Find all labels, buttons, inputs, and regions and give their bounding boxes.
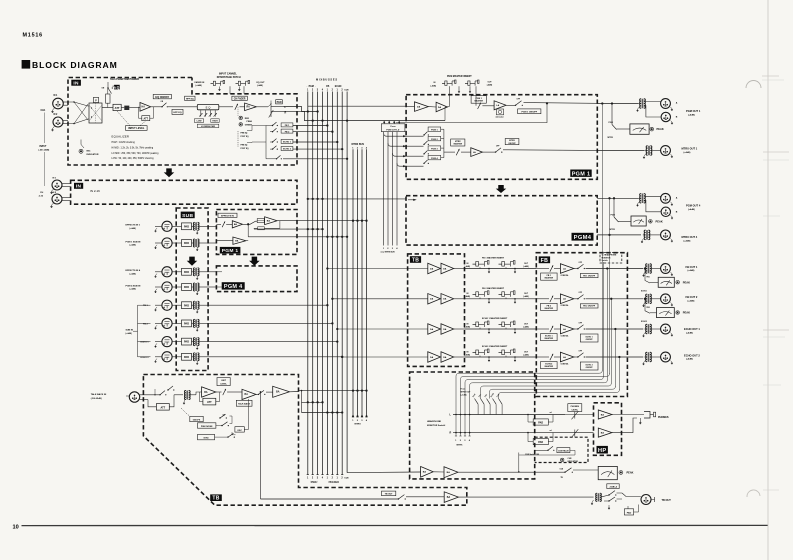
pgm1 peak led — [650, 127, 654, 131]
cue send to bus — [283, 158, 347, 160]
svg-text:FB OUT 1: FB OUT 1 — [686, 265, 698, 269]
mic indicator — [80, 140, 82, 145]
svg-text:FB ECHO: FB ECHO — [329, 482, 340, 484]
sub jack row 2 — [162, 238, 172, 248]
svg-text:IN: IN — [467, 351, 470, 353]
tb out line — [261, 498, 399, 500]
svg-text:LOW : 50, 100, 200, 350, 5: LOW : 50, 100, 200, 350, 500Hz shelving — [112, 158, 155, 160]
effects amp BA1 — [232, 221, 242, 228]
svg-text:FB: FB — [541, 258, 549, 264]
label tag IN (2-16) — [74, 183, 83, 189]
svg-text:2-16: 2-16 — [39, 195, 44, 197]
block PGM1 master dashed outline — [406, 95, 597, 180]
svg-text:OUT: OUT — [524, 293, 529, 295]
flow arrow SUB column — [187, 257, 198, 266]
svg-text:OFF: OFF — [579, 262, 582, 264]
svg-text:3: 3 — [361, 147, 363, 149]
fb master row 1 fader — [550, 265, 553, 271]
svg-text:CUE: CUE — [344, 90, 349, 92]
svg-text:ECHO2: ECHO2 — [641, 321, 647, 323]
pgm1 out line — [597, 103, 638, 105]
svg-text:MTRX OUT: MTRX OUT — [461, 392, 472, 394]
sub jack row 6 — [162, 318, 172, 328]
svg-text:ON/OFF: ON/OFF — [586, 367, 594, 369]
svg-text:4: 4 — [322, 89, 324, 92]
output PGM OUT 4 transformer — [640, 194, 642, 204]
svg-text:LA: LA — [496, 104, 499, 107]
svg-text:PEAK: PEAK — [683, 280, 690, 284]
svg-text:PAD: PAD — [538, 441, 543, 444]
svg-text:PHONES: PHONES — [571, 406, 580, 408]
sub feed lines rows 1-2 to PGM1 sub — [208, 225, 216, 227]
svg-text:PRE EQ: PRE EQ — [241, 144, 248, 146]
svg-text:IN: IN — [467, 263, 470, 265]
svg-text:IN: IN — [76, 184, 82, 190]
effects out to mtrx busses — [277, 220, 366, 222]
svg-text:PRE EQ: PRE EQ — [241, 132, 248, 134]
svg-text:M I X B U S S E S: M I X B U S S E S — [316, 78, 337, 82]
svg-text:2: 2 — [387, 248, 389, 250]
talkback out switch — [256, 393, 259, 395]
svg-text:(-4dB): (-4dB) — [465, 325, 471, 328]
svg-text:BA: BA — [235, 240, 239, 243]
pgm4 meter — [631, 216, 646, 226]
sub pgm amp BA3 — [216, 240, 233, 242]
pgm1 master attenuator box — [496, 109, 503, 115]
svg-text:1: 1 — [455, 440, 457, 442]
svg-text:TALK BACK IN: TALK BACK IN — [91, 393, 107, 396]
svg-text:LA: LA — [563, 267, 566, 270]
svg-text:HIGH : 10kHz shelving: HIGH : 10kHz shelving — [112, 142, 136, 144]
svg-text:PGM OUT 4: PGM OUT 4 — [686, 204, 701, 208]
block TB bus-amps dashed outline — [408, 254, 465, 367]
tb out switch network — [601, 495, 609, 497]
monitor source switches — [475, 399, 479, 405]
fb echo cue send switches and boxes — [272, 125, 273, 126]
svg-text:MONITOR SwitcH: MONITOR SwitcH — [427, 424, 446, 427]
svg-text:OFF: OFF — [579, 292, 582, 294]
svg-text:(+1dB): (+1dB) — [461, 395, 467, 397]
svg-text:(-4dB): (-4dB) — [523, 353, 529, 356]
svg-text:LO MID/HI MID: LO MID/HI MID — [201, 126, 216, 128]
svg-text:IN 2-16: IN 2-16 — [90, 189, 100, 193]
block PGM1 sub dashed outline — [216, 210, 297, 255]
svg-text:PGM 1: PGM 1 — [431, 129, 438, 131]
fb master row 4 label box — [541, 362, 558, 369]
svg-text:1: 1 — [352, 420, 354, 422]
bus amp pair row 1 — [408, 268, 428, 270]
scan artifact arcs — [746, 81, 761, 89]
svg-text:ECHO1: ECHO1 — [641, 291, 647, 293]
svg-text:BA: BA — [245, 393, 249, 396]
svg-text:EQUALIZER: EQUALIZER — [112, 135, 130, 139]
svg-text:(-4dB): (-4dB) — [257, 84, 263, 87]
sub feed lines rows 3-4 to PGM4 sub — [208, 271, 217, 273]
svg-text:PAD: PAD — [627, 511, 632, 514]
output ECHO OUT 1 transformer — [646, 324, 648, 334]
fb master row 2 label box — [541, 303, 558, 310]
svg-text:BA: BA — [234, 223, 238, 226]
svg-text:R: R — [285, 111, 287, 114]
svg-text:DA: DA — [417, 105, 421, 108]
label tag IN — [71, 80, 81, 86]
svg-text:2: 2 — [332, 90, 334, 92]
svg-text:2: 2 — [460, 440, 462, 442]
svg-text:ECHO 2: ECHO 2 — [283, 149, 292, 151]
svg-text:PAD: PAD — [184, 323, 189, 326]
fb master row 4 fader — [550, 354, 553, 360]
svg-text:ECHO OUT 1: ECHO OUT 1 — [684, 327, 700, 331]
label tag PGM4 big — [572, 233, 594, 241]
eq on/off box — [153, 94, 171, 98]
svg-text:HPF EQ: HPF EQ — [186, 98, 194, 100]
effects fader — [216, 223, 221, 225]
svg-text:500CPS: 500CPS — [193, 419, 201, 421]
svg-text:B: B — [676, 212, 678, 214]
svg-text:M 2: M 2 — [54, 114, 59, 116]
pgm4 input line from bus — [308, 198, 406, 200]
bottom peak led — [619, 471, 623, 475]
svg-text:FB2: FB2 — [647, 307, 650, 309]
pgm summing feedback — [445, 107, 447, 121]
svg-text:SUB: SUB — [182, 213, 193, 219]
svg-text:PEAK: PEAK — [656, 219, 663, 223]
svg-text:From: From — [391, 126, 396, 128]
bus lines PGM1-4 FB1-2 ECHO1-2 CUE — [307, 92, 309, 475]
connector CH2-16 XLR b — [52, 194, 62, 204]
svg-text:OUT: OUT — [524, 323, 529, 325]
svg-text:IN: IN — [73, 81, 79, 87]
svg-text:4: 4 — [366, 146, 368, 149]
eq bypass switch — [151, 106, 162, 108]
svg-text:MASTER: MASTER — [545, 337, 554, 340]
svg-text:BLOCK DIAGRAM: BLOCK DIAGRAM — [32, 60, 118, 70]
output PGM OUT 1 transformer — [640, 99, 642, 109]
svg-text:-10dB/+4: -10dB/+4 — [609, 485, 618, 488]
pgm1 to matrix feed tap — [396, 103, 547, 122]
svg-text:HIGH: HIGH — [212, 121, 218, 123]
svg-text:2: 2 — [341, 90, 343, 92]
fb master row 2 on/off box — [580, 304, 598, 308]
svg-text:TB: TB — [412, 257, 419, 263]
svg-text:ATT: ATT — [144, 118, 149, 121]
svg-text:(+4dB): (+4dB) — [688, 269, 695, 272]
svg-text:PAD: PAD — [538, 422, 543, 425]
tb out transformer — [596, 493, 598, 501]
heading BLOCK DIAGRAM — [22, 60, 31, 69]
svg-text:OUT: OUT — [524, 351, 529, 353]
output FB OUT 2 transformer — [646, 294, 648, 304]
bus bottom labels — [307, 474, 309, 476]
pgm summing amps — [406, 106, 414, 108]
mtrx4 out line — [597, 234, 641, 236]
svg-text:(+4dB): (+4dB) — [684, 239, 691, 242]
svg-text:MASTER: MASTER — [545, 307, 554, 310]
osc box — [235, 427, 244, 432]
label tag TB bottom — [210, 494, 222, 501]
fb master row 3 on/off box — [580, 334, 598, 342]
pan pot — [256, 106, 268, 108]
svg-text:DA: DA — [430, 267, 434, 270]
svg-text:cal: cal — [550, 430, 553, 432]
svg-text:M 1: M 1 — [53, 178, 57, 180]
svg-text:MTRX BUS: MTRX BUS — [352, 143, 365, 146]
svg-text:(+4dB): (+4dB) — [126, 332, 133, 335]
fb1 meter branch — [644, 267, 646, 269]
svg-text:CH FADER: CH FADER — [234, 97, 246, 100]
svg-text:ECHO: ECHO — [335, 86, 342, 88]
svg-text:ON: ON — [161, 101, 164, 103]
pgm1 meter — [630, 124, 649, 134]
svg-text:PGM: PGM — [611, 215, 616, 217]
flow arrow IN to IN2-16 — [164, 168, 175, 177]
sub in bracket — [138, 305, 151, 357]
svg-text:1: 1 — [307, 90, 309, 92]
hpf eq box 1 — [172, 109, 183, 114]
svg-text:ECHO 1 MASTER INSERT: ECHO 1 MASTER INSERT — [482, 317, 508, 320]
pgm4 peak led — [649, 220, 653, 224]
mtrx master amp — [471, 148, 483, 157]
svg-text:PGM MASTER INSERT: PGM MASTER INSERT — [447, 75, 472, 78]
equalizer block — [197, 104, 219, 109]
bus amp pair row 3 — [408, 328, 428, 330]
svg-text:LA: LA — [563, 328, 566, 331]
label tag TB mid — [410, 256, 421, 263]
svg-text:DA: DA — [430, 298, 434, 301]
matrix select boxes — [428, 127, 441, 131]
svg-text:OFF: OFF — [517, 99, 520, 101]
svg-text:2: 2 — [341, 478, 343, 480]
svg-text:RA: RA — [246, 106, 250, 109]
sub jack row 1 — [162, 221, 172, 231]
svg-text:CH1: CH1 — [41, 109, 46, 112]
svg-text:FB 2 ON/OFF: FB 2 ON/OFF — [583, 306, 596, 308]
phones level box — [568, 404, 582, 412]
svg-text:attenuator: attenuator — [496, 116, 505, 119]
tb out amp — [444, 492, 458, 503]
svg-text:(-4dB): (-4dB) — [465, 265, 471, 268]
pgm1 master amp LA — [494, 101, 506, 110]
channel amp RA — [245, 103, 257, 111]
att box 1 — [102, 107, 113, 109]
svg-text:1: 1 — [337, 90, 339, 92]
channel R out to bus — [284, 111, 446, 120]
svg-text:CUE: CUE — [344, 478, 349, 480]
svg-text:FB1: FB1 — [647, 277, 650, 279]
svg-text:SUB IN: SUB IN — [126, 329, 134, 331]
svg-text:BA: BA — [423, 471, 427, 474]
sub jack row 5 — [162, 300, 172, 310]
pgm1 master label box — [471, 96, 486, 104]
block headphone monitor dashed outline — [410, 372, 535, 479]
svg-text:TB: TB — [561, 477, 564, 479]
svg-text:IN: IN — [467, 323, 470, 325]
output MTRX OUT 4 transformer — [644, 230, 646, 240]
svg-text:EQ ON/OFF: EQ ON/OFF — [155, 96, 169, 99]
svg-text:3: 3 — [464, 440, 466, 442]
tb out vertical — [260, 391, 262, 393]
svg-text:L: L — [450, 413, 452, 416]
svg-text:(+4dB): (+4dB) — [688, 300, 695, 303]
svg-text:1: 1 — [352, 147, 354, 149]
svg-text:HI MID : 1.2k, 2k, 3.5k, 5k,: HI MID : 1.2k, 2k, 3.5k, 5k, 7kHz peakin… — [112, 147, 154, 149]
svg-text:PGM4: PGM4 — [574, 235, 592, 241]
svg-text:MTRX: MTRX — [509, 140, 515, 142]
output MTRX OUT 1 transformer — [646, 146, 648, 156]
line to fb echo cue busses — [248, 236, 347, 238]
label tag SUB — [181, 212, 195, 219]
fb master row 2 on/off switch — [574, 298, 578, 300]
svg-text:ATT: ATT — [115, 106, 120, 110]
svg-text:4: 4 — [322, 477, 324, 480]
tb to mtrx busses — [299, 390, 367, 392]
channel L out to bus — [284, 107, 318, 112]
svg-text:1: 1 — [383, 248, 385, 250]
block PGM4 sub dashed outline — [216, 266, 297, 292]
svg-text:CUE: CUE — [568, 458, 573, 460]
bottom peak meter — [598, 466, 617, 479]
svg-text:BA: BA — [204, 391, 208, 394]
gain trim block — [124, 106, 129, 110]
tb to fb echo busses — [302, 412, 343, 414]
svg-text:INPUT: INPUT — [40, 146, 47, 148]
svg-text:PEAK: PEAK — [683, 311, 690, 315]
svg-text:HPF EQ: HPF EQ — [173, 112, 181, 114]
svg-text:└PGM┘: └PGM┘ — [310, 480, 319, 484]
svg-text:2: 2 — [357, 420, 359, 422]
svg-text:(+4dB): (+4dB) — [130, 227, 137, 230]
phones level pots — [565, 414, 594, 416]
svg-text:EFFECTS IN: EFFECTS IN — [221, 216, 234, 218]
tb out line right — [458, 496, 593, 498]
mtrx master fader — [456, 149, 459, 155]
svg-text:PGM 3: PGM 3 — [431, 148, 438, 150]
pgm4 sub entry ticks — [217, 271, 222, 273]
svg-text:LA: LA — [473, 151, 476, 154]
svg-text:LA: LA — [563, 298, 566, 301]
svg-text:FB 1: FB 1 — [143, 305, 149, 307]
cue bus bend to monitor — [347, 471, 421, 474]
svg-text:PGM 1: PGM 1 — [572, 171, 591, 177]
eq tag phantom — [114, 85, 120, 90]
block IN 2-16 dashed outline — [71, 180, 297, 204]
ch fader — [219, 106, 233, 108]
svg-text:PEAK: PEAK — [627, 472, 634, 475]
svg-text:HP: HP — [598, 448, 607, 454]
cue line to peak meter — [458, 471, 565, 473]
svg-text:OFF: OFF — [496, 146, 499, 148]
pgm4 out line — [597, 197, 638, 199]
svg-text:IN: IN — [434, 82, 437, 84]
pgm4 big entry arrow — [408, 199, 415, 201]
talkback transformer — [174, 394, 183, 396]
talkback mix amp BA2 — [242, 389, 256, 399]
svg-text:INPUT LEVEL: INPUT LEVEL — [128, 127, 145, 130]
svg-text:OUT: OUT — [488, 81, 493, 83]
svg-text:(-4dB): (-4dB) — [487, 84, 493, 87]
fb master row 3 amp LA — [560, 324, 573, 334]
svg-text:PGM 2: PGM 2 — [431, 139, 438, 141]
svg-text:HEADPHONE: HEADPHONE — [427, 420, 442, 423]
label tag PGM 4 small — [222, 282, 245, 289]
flow arrow PGM column — [249, 257, 260, 266]
svg-text:BA: BA — [601, 431, 605, 434]
mtrx on/off box — [505, 139, 519, 145]
svg-text:FB 1 MASTER INSERT: FB 1 MASTER INSERT — [482, 257, 505, 260]
svg-text:3: 3 — [317, 478, 319, 480]
svg-text:4: 4 — [366, 419, 368, 422]
svg-text:A: A — [676, 197, 678, 200]
mtrx1 out line — [597, 150, 644, 152]
svg-text:FB1: FB1 — [478, 394, 482, 398]
mtrx on/off switch — [482, 151, 495, 153]
svg-text:MTRX: MTRX — [355, 424, 362, 426]
svg-text:LOW: LOW — [197, 121, 202, 123]
svg-text:PAD: PAD — [184, 225, 189, 228]
talkback xlr — [129, 392, 139, 402]
svg-text:FB 2 MASTER INSERT: FB 2 MASTER INSERT — [482, 287, 505, 290]
svg-text:LEVEL: LEVEL — [220, 384, 227, 386]
svg-text:1: 1 — [337, 478, 339, 480]
svg-text:MIC: MIC — [87, 151, 91, 153]
to headphone monitor text — [600, 252, 622, 263]
monitor feed lines from outputs — [601, 104, 603, 371]
equalizer pots — [200, 110, 202, 116]
svg-text:1: 1 — [327, 478, 329, 480]
svg-text:1: 1 — [307, 478, 309, 480]
cue relay — [535, 449, 548, 451]
svg-text:3: 3 — [392, 248, 394, 250]
svg-text:LEVEL: LEVEL — [572, 409, 579, 411]
svg-text:PAN: PAN — [277, 101, 282, 104]
svg-text:MTRX OUT 4: MTRX OUT 4 — [682, 235, 698, 239]
aux out to pgm busses — [254, 227, 258, 229]
svg-text:EQ OUT: EQ OUT — [257, 82, 266, 84]
svg-text:PAD: PAD — [184, 341, 189, 344]
svg-text:4: 4 — [469, 439, 471, 442]
low high labels — [194, 119, 203, 123]
svg-text:DA: DA — [443, 328, 447, 331]
svg-text:ECHO 1: ECHO 1 — [141, 342, 150, 344]
ch fader box — [232, 96, 247, 100]
fb master row 4 on/off box — [580, 362, 598, 370]
svg-text:TB: TB — [212, 496, 219, 502]
effects in box — [218, 213, 237, 217]
svg-text:ON/OFF: ON/OFF — [508, 143, 516, 145]
svg-text:LO MID : 250, 350, 500, 700, 1: LO MID : 250, 350, 500, 700, 1000Hz peak… — [112, 153, 160, 155]
pgm4 meter select switch — [613, 198, 615, 217]
svg-text:1: 1 — [327, 90, 329, 92]
fb2 meter branch — [644, 298, 646, 300]
svg-text:LA: LA — [563, 356, 566, 359]
talkback amp BA1 — [202, 387, 216, 397]
sub jack row 3 — [162, 267, 172, 277]
svg-text:OFF: OFF — [579, 322, 582, 324]
summing resistor box — [257, 219, 264, 223]
svg-text:OUT: OUT — [524, 263, 529, 265]
svg-text:TB OUT: TB OUT — [662, 499, 672, 502]
tb out pad box — [624, 509, 633, 515]
svg-text:FB OUT 2: FB OUT 2 — [686, 295, 698, 299]
matrix feed lines — [383, 132, 385, 246]
monitor mtrx stubs dots — [455, 414, 457, 416]
pgm1 meter select switch — [611, 104, 613, 125]
svg-text:CUE RELAY: CUE RELAY — [558, 450, 569, 453]
svg-text:←PGM→: ←PGM→ — [306, 86, 316, 88]
svg-text:ON/OFF: ON/OFF — [586, 339, 594, 341]
svg-text:PGM 1 SUB IN: PGM 1 SUB IN — [126, 241, 141, 243]
pan box — [276, 100, 283, 104]
